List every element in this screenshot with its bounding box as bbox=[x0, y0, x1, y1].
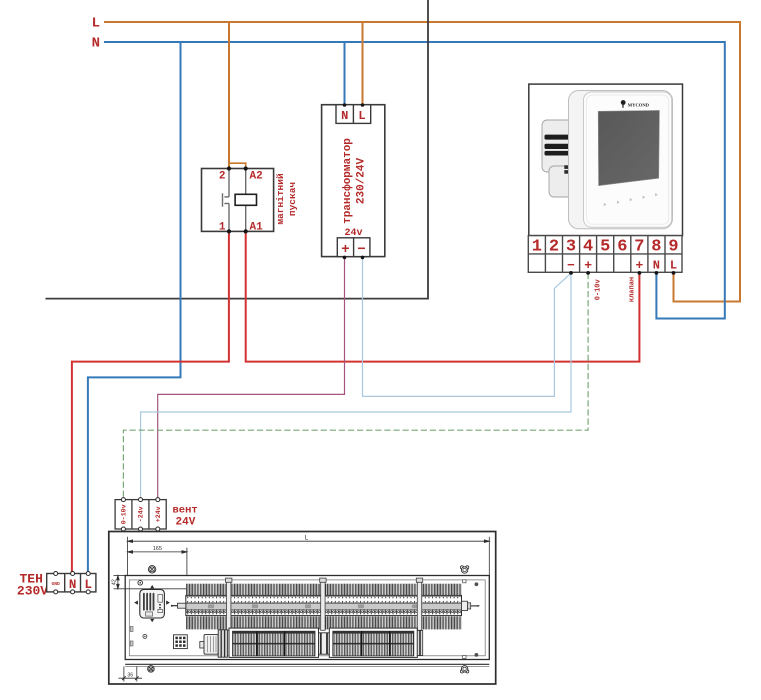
fan housing right bbox=[329, 628, 417, 657]
svg-text:0-10v: 0-10v bbox=[594, 279, 602, 301]
wire orange branch from L bus to contactor terminal 2 bbox=[228, 22, 230, 169]
transformer secondary terminal block + - bbox=[337, 238, 370, 257]
logo MYCOND bbox=[621, 100, 650, 108]
svg-text:магнітний: магнітний bbox=[275, 173, 286, 225]
fan end bracket bbox=[417, 631, 422, 656]
label трансформатор 230/24V bbox=[341, 138, 368, 224]
transformer primary terminal block N L bbox=[336, 105, 371, 124]
convector bottom flange lines bbox=[125, 663, 489, 665]
dimension L bbox=[128, 537, 490, 576]
svg-text:L: L bbox=[670, 258, 677, 272]
svg-text:230/24V: 230/24V bbox=[355, 158, 367, 205]
node transformer L bbox=[361, 103, 365, 107]
terminal numbers 1-9 bbox=[532, 237, 679, 256]
convector outer casing bbox=[109, 532, 496, 685]
fan mid coupling bbox=[319, 633, 330, 654]
svg-text:6: 6 bbox=[617, 237, 627, 256]
svg-text:вент: вент bbox=[173, 505, 198, 517]
panel notches right bbox=[463, 580, 466, 583]
svg-text:+: + bbox=[341, 242, 349, 258]
thermostat front face bbox=[584, 92, 672, 227]
node contactor A2 bbox=[244, 166, 248, 170]
svg-text:3: 3 bbox=[566, 237, 576, 256]
node terminal 8 bbox=[655, 271, 659, 275]
svg-text:GND: GND bbox=[52, 581, 61, 587]
svg-text:N: N bbox=[653, 258, 660, 272]
svg-text:L: L bbox=[358, 109, 365, 123]
svg-text:-24v: -24v bbox=[138, 506, 145, 522]
convector left inner shelf line bbox=[125, 588, 186, 590]
svg-text:+24v: +24v bbox=[155, 506, 162, 522]
fan housing left bbox=[229, 628, 319, 657]
node contactor 1 bbox=[227, 229, 231, 233]
svg-text:A1: A1 bbox=[250, 221, 264, 233]
node transformer N bbox=[343, 103, 347, 107]
connector вент box 0-10v -24v +24v bbox=[115, 500, 166, 529]
convector inner casing bbox=[125, 576, 489, 660]
node contactor 2 bbox=[227, 166, 231, 170]
heat exchanger upper fin comb bbox=[186, 584, 462, 596]
svg-text:165: 165 bbox=[153, 546, 162, 552]
svg-text:N: N bbox=[341, 109, 348, 123]
wire red contactor 1 to TEH connector N bbox=[72, 231, 229, 572]
svg-text:9: 9 bbox=[668, 237, 678, 256]
thermostat connector pins bbox=[564, 131, 577, 174]
wire light blue thermostat terminal 3 to fan connector -24v bbox=[141, 273, 571, 498]
svg-text:2: 2 bbox=[219, 171, 226, 183]
svg-text:+: + bbox=[584, 258, 592, 273]
convector inner panel bbox=[129, 580, 485, 656]
svg-text:7: 7 bbox=[634, 237, 644, 256]
perforated junction box bbox=[174, 635, 188, 649]
control motor box bbox=[134, 585, 170, 622]
svg-text:−: − bbox=[567, 258, 575, 273]
svg-text:5: 5 bbox=[600, 237, 610, 256]
indicator circle above motor box bbox=[138, 581, 143, 586]
svg-text:L: L bbox=[92, 16, 100, 32]
node transformer + bbox=[343, 256, 347, 260]
screw bottom left bbox=[148, 666, 155, 673]
panel corner bolts right bbox=[475, 582, 479, 586]
thermostat rear module with vents bbox=[542, 120, 579, 197]
svg-text:36: 36 bbox=[127, 673, 133, 679]
svg-text:1: 1 bbox=[532, 237, 542, 256]
node transformer - bbox=[361, 256, 365, 260]
dimension 165 bbox=[128, 548, 187, 575]
wire light blue transformer - to thermostat terminal 3 bbox=[363, 258, 571, 397]
svg-text:4: 4 bbox=[583, 237, 593, 256]
heat exchanger lower fin comb bbox=[186, 616, 462, 629]
wire blue from N bus down-left to TEH connector L bbox=[88, 42, 181, 573]
ear screw bottom right bbox=[460, 666, 468, 673]
contactor K1 box bbox=[202, 169, 274, 232]
wire orange branch from L bus to transformer L bbox=[362, 22, 364, 105]
connector TEH box GND N L bbox=[47, 574, 96, 592]
svg-text:24V: 24V bbox=[176, 517, 196, 529]
svg-text:−: − bbox=[357, 242, 365, 258]
wire orange jumper contactor 2 to A2 bbox=[229, 163, 246, 168]
dimension 42 bbox=[114, 576, 126, 589]
screw top left bbox=[148, 566, 155, 573]
wire red contactor A1 to thermostat terminal 7 (valve) bbox=[246, 231, 640, 361]
transformer T1 box 230/24V bbox=[322, 105, 385, 257]
svg-text:A2: A2 bbox=[250, 171, 263, 183]
temperature sensor pin right bbox=[462, 601, 481, 610]
wire N bus: blue line, right drop to thermostat terminal 8 bbox=[104, 42, 725, 319]
svg-text:1: 1 bbox=[219, 221, 226, 233]
thermostat touch keys bbox=[604, 193, 658, 206]
thermostat body bbox=[569, 91, 673, 229]
left wall clips bbox=[130, 627, 133, 632]
small circle left area bbox=[143, 634, 147, 638]
thermostat terminal strip 1-9 bbox=[528, 236, 682, 273]
svg-text:42: 42 bbox=[111, 579, 117, 585]
contactor contact branch (gray) with NO contact symbol bbox=[223, 169, 230, 232]
svg-text:+: + bbox=[635, 258, 643, 273]
thermostat photo frame bbox=[529, 84, 683, 236]
svg-text:0-10v: 0-10v bbox=[121, 504, 128, 524]
node terminal 9 bbox=[672, 271, 676, 275]
pipe stub left bbox=[171, 603, 186, 608]
svg-text:N: N bbox=[92, 36, 100, 52]
dimension 36 bbox=[119, 667, 143, 682]
label магнітний пускач bbox=[275, 173, 298, 225]
svg-text:230V: 230V bbox=[17, 584, 48, 599]
contactor coil branch wire (gray) bbox=[245, 169, 247, 232]
contactor coil A1-A2 bbox=[235, 194, 256, 205]
wire L bus: top orange line, right drop to thermostat terminal 9 bbox=[104, 22, 740, 302]
wire green dashed thermostat terminal 4 (0-10v) to fan connector 0-10v bbox=[123, 273, 588, 498]
tangential fan motor cap bbox=[204, 634, 218, 654]
wire black vertical drop with horizontal run (load line) bbox=[46, 0, 429, 299]
ear screw top right bbox=[460, 566, 468, 573]
svg-text:трансформатор: трансформатор bbox=[341, 138, 354, 224]
svg-text:MYCOND: MYCOND bbox=[628, 103, 650, 108]
tangential fan motor nub bbox=[200, 642, 204, 648]
fan flange stack bbox=[218, 630, 227, 657]
fin pack mounting brackets bbox=[226, 578, 423, 630]
node terminal 7 bbox=[638, 271, 642, 275]
node terminal 3 bbox=[569, 271, 573, 275]
TEH terminal screws bbox=[54, 572, 90, 594]
node contactor A1 bbox=[244, 229, 248, 233]
svg-text:2: 2 bbox=[549, 237, 559, 256]
terminal row2 labels - + + N L bbox=[567, 258, 677, 273]
svg-text:8: 8 bbox=[651, 237, 661, 256]
heat exchanger tube rows bbox=[186, 595, 462, 615]
thermostat LCD screen bbox=[598, 110, 659, 185]
wire blue branch from N bus to transformer N bbox=[344, 42, 346, 105]
svg-text:пускач: пускач bbox=[287, 182, 298, 217]
wire magenta transformer + to fan connector +24v bbox=[158, 258, 345, 498]
node terminal 4 bbox=[586, 271, 590, 275]
svg-text:клапан: клапан bbox=[629, 277, 637, 302]
fan connector terminal screws bbox=[121, 498, 159, 531]
